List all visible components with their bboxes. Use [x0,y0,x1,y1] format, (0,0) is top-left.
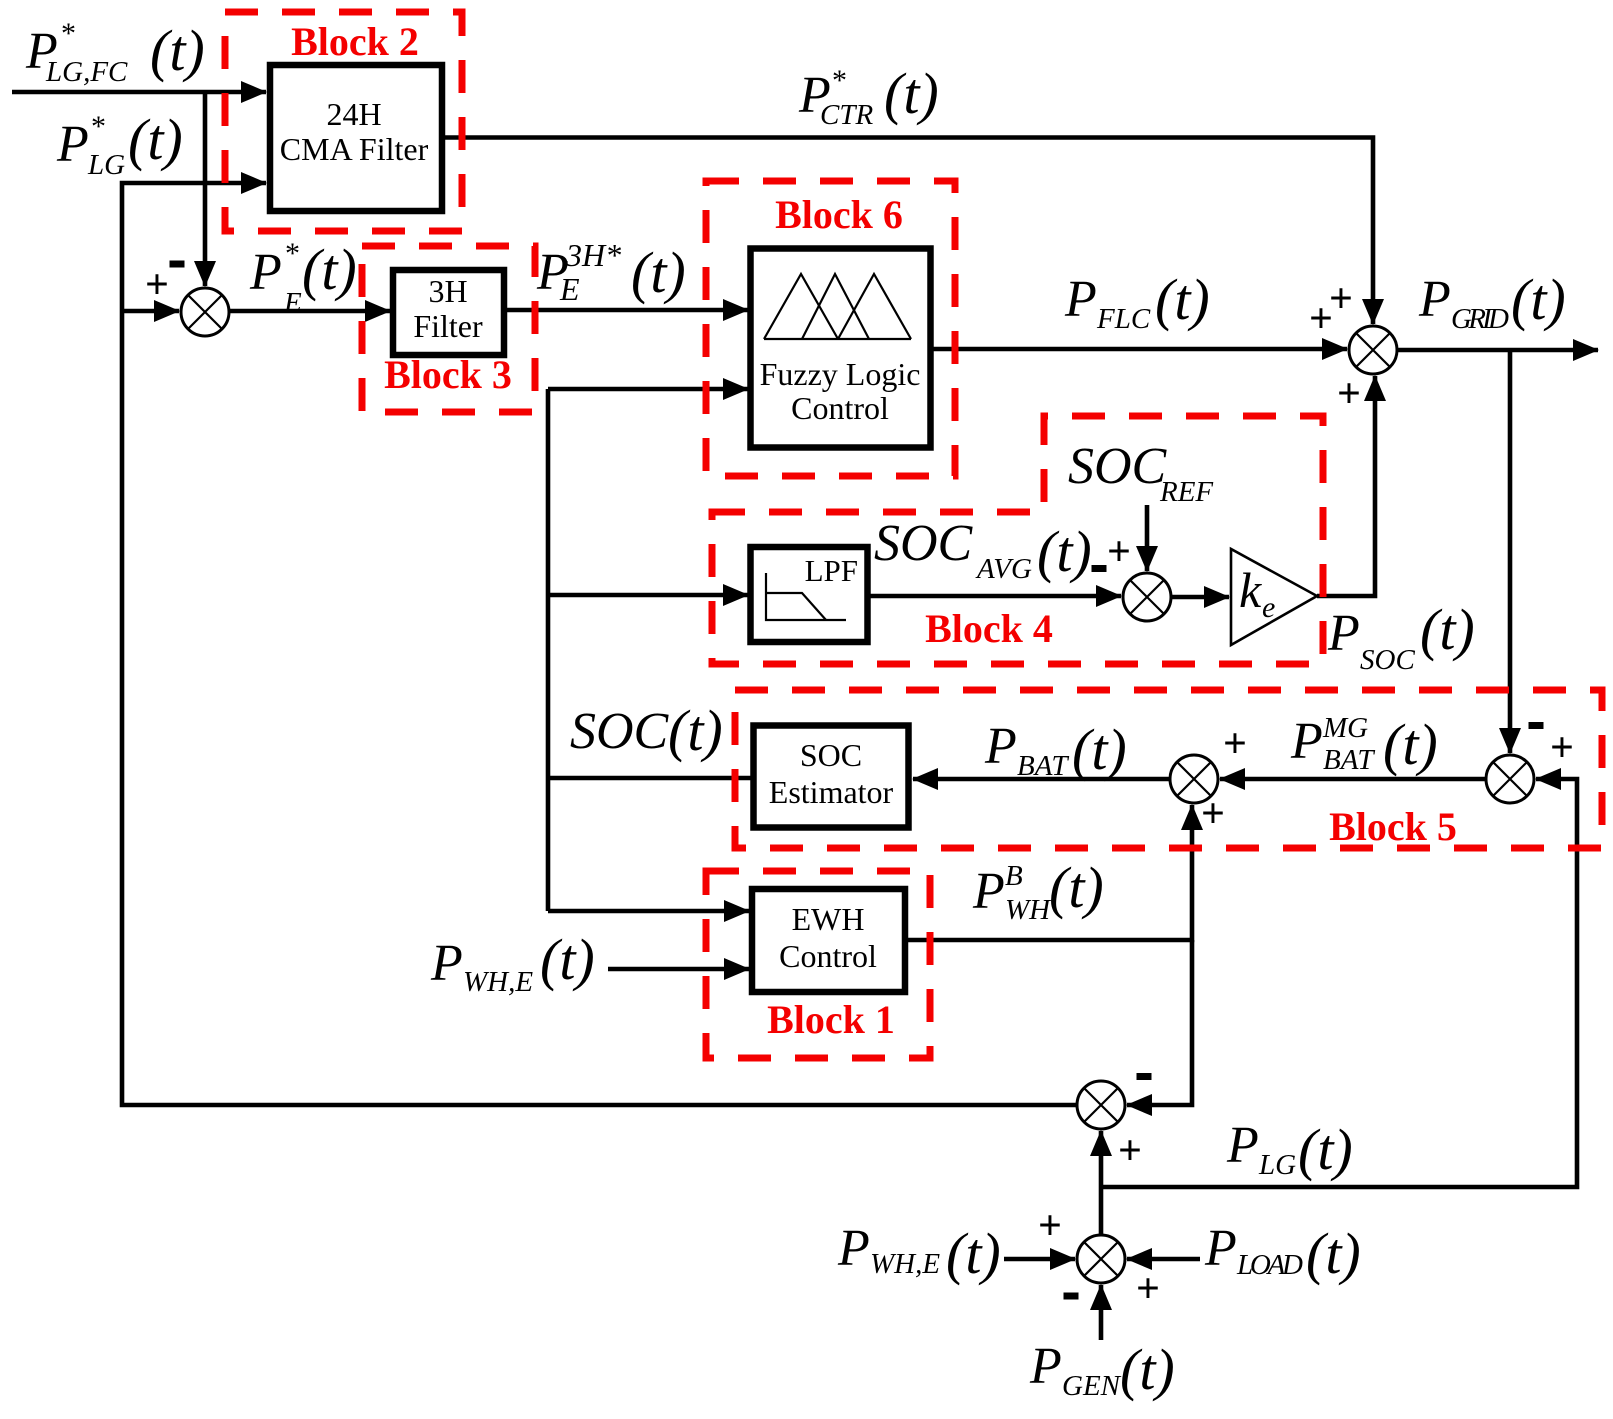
wire PGRID branch down to node J4 top [1508,350,1513,753]
wire bus to EWH Control input 1 [548,909,749,914]
wire PWH,E input to EWH Control input 2 [608,967,749,972]
svg-text:P: P [984,718,1017,775]
svg-text:E: E [283,287,302,319]
svg-text:Filter: Filter [413,308,483,344]
block 24H CMA Filter [270,65,442,211]
svg-text:(t): (t) [884,61,939,126]
svg-text:(t): (t) [1420,597,1475,662]
sign plus J4 right [1550,725,1574,771]
svg-text:SOC: SOC [1068,438,1168,495]
label PLG(t) bottom [1226,1117,1353,1182]
svg-text:P: P [1226,1117,1259,1174]
sign plus J3 bottom [1201,791,1225,837]
svg-text:+: + [1201,791,1225,837]
svg-text:(t): (t) [668,698,723,763]
wire PGRID output of S2 to right edge arrow [1397,348,1598,353]
svg-text:E: E [559,271,580,307]
wire SOC(t) from SOC Estimator to bus [548,776,751,781]
svg-text:(t): (t) [150,18,205,83]
svg-text:CTR: CTR [820,99,873,131]
svg-text:24H: 24H [326,96,381,132]
wire EWH output PBWH right then up into node J3 bottom [908,805,1192,940]
label P*LG,FC(t) [25,17,205,88]
wire branch into S1 left input [122,309,179,314]
svg-text:P: P [1204,1220,1237,1277]
svg-text:(t): (t) [1072,717,1127,782]
svg-text:LG: LG [1258,1149,1296,1181]
wire branch of PBWH down then left into node J6 right [1127,940,1192,1105]
sign plus J6 bottom [1118,1128,1142,1174]
sign plus S1 left [145,262,169,308]
svg-text:LPF: LPF [805,553,858,588]
svg-text:(t): (t) [540,927,595,992]
label PLOAD(t) [1204,1220,1361,1286]
wire bus to LPF input [548,593,748,598]
label SOCREF [1068,438,1213,508]
svg-text:+: + [1038,1203,1062,1249]
label P3H*E(t) [536,237,686,307]
svg-text:+: + [1337,371,1361,417]
svg-text:(t): (t) [1298,1117,1353,1182]
gain triangle ke [1231,549,1317,645]
svg-text:3H*: 3H* [565,237,621,273]
svg-text:Estimator: Estimator [769,774,894,810]
svg-text:(t): (t) [1120,1337,1175,1402]
svg-text:P: P [1327,605,1360,662]
wire SOCREF down into S3 top [1145,505,1150,571]
svg-text:Control: Control [779,938,877,974]
label PGEN(t) [1029,1337,1175,1402]
block LPF [751,547,868,642]
sign plus S3 top [1107,529,1131,575]
sign plus J3 right [1223,721,1247,767]
sign minus S1 top [170,261,185,268]
svg-text:AVG: AVG [975,553,1032,585]
svg-text:P: P [430,935,463,992]
label PWH,E(t) lower [837,1220,1001,1286]
wire 3H Filter output P3H*E to Fuzzy Logic Control input 1 [507,308,748,313]
wire P*LG,FC input line [12,90,266,95]
svg-text:Block 4: Block 4 [925,606,1053,651]
summing node J4 [1486,755,1534,803]
svg-text:(t): (t) [946,1221,1001,1286]
svg-text:REF: REF [1159,476,1213,508]
svg-text:P: P [249,244,282,301]
svg-text:FLC: FLC [1096,303,1151,335]
label PFLC(t) [1064,267,1210,335]
label P*LG(t) [56,107,183,181]
svg-text:SOC: SOC [800,737,862,773]
label PWH,E(t) upper [430,927,595,998]
sign minus S3 left [1092,565,1107,572]
label SOCAVG(t) [874,515,1092,585]
wire J3 output PBAT to SOC Estimator [913,777,1170,782]
wire PSOC: gain output right then up into S2 bottom [1317,376,1375,596]
svg-text:P: P [56,116,89,173]
wire PWH,E into J5 left [1004,1257,1075,1262]
wire feedback P*LG: from node J6 output left, up left side, into 24H filter [122,183,1077,1105]
summing node J6 [1077,1081,1125,1129]
svg-text:+: + [1136,1266,1160,1312]
svg-text:+: + [1309,296,1333,342]
svg-text:Block 3: Block 3 [384,352,512,397]
svg-text:+: + [1118,1128,1142,1174]
svg-text:+: + [1223,721,1247,767]
wire P*CTR: 24H filter output right then down into S2 top [440,138,1373,325]
svg-text:P: P [1418,271,1451,328]
svg-text:(t): (t) [1049,855,1104,920]
svg-text:GRID: GRID [1451,303,1509,335]
svg-text:3H: 3H [428,273,467,309]
svg-text:Block 2: Block 2 [291,19,419,64]
label PMGBAT(t) [1290,712,1438,777]
wire branch down to summing node S1 top [203,92,208,286]
label SOC(t) [570,698,723,763]
wire S3 output to gain ke [1171,595,1229,600]
label P*CTR(t) [798,61,939,131]
block SOC Estimator [754,726,909,828]
label PGRID(t) [1418,267,1566,335]
summing node S1 [181,288,229,336]
wire SOC bus vertical [546,389,551,911]
svg-text:(t): (t) [1383,712,1438,777]
svg-text:SOC: SOC [874,515,974,572]
svg-text:BAT: BAT [1017,750,1069,782]
svg-text:CMA Filter: CMA Filter [280,131,429,167]
dashed group Block 1 [706,871,930,1058]
wire bus to FLC input 2 [548,387,748,392]
dashed group Block 4 [712,416,1323,664]
svg-text:(t): (t) [128,107,183,172]
wire J4 output PMGBAT to J3 right [1220,777,1486,782]
label PBAT(t) [984,717,1127,782]
svg-text:e: e [1262,591,1275,624]
block 3H Filter [393,270,504,355]
svg-text:P: P [1064,271,1097,328]
sign plus S2 left [1309,296,1333,342]
dashed group Block 2 [225,12,462,231]
sign plus S2 top [1329,276,1353,322]
summing node J3 [1170,755,1218,803]
svg-text:EWH: EWH [792,901,865,937]
dashed group Block 5 [735,690,1602,849]
svg-text:*: * [285,237,300,270]
summing node J5 [1077,1235,1125,1283]
svg-text:P: P [972,863,1005,920]
svg-text:LOAD: LOAD [1236,1249,1303,1281]
sign plus S2 bottom [1337,371,1361,417]
svg-text:(t): (t) [302,237,357,302]
sign plus J5 left [1038,1203,1062,1249]
sign minus J4 top [1529,722,1544,729]
block Fuzzy Logic Control [751,249,931,448]
svg-text:P: P [1290,713,1323,770]
wire J5 output up into J6 bottom [1099,1131,1104,1235]
sign plus J5 right [1136,1266,1160,1312]
wire PGEN into J5 bottom [1099,1285,1104,1340]
svg-text:k: k [1239,562,1262,618]
svg-text:Fuzzy Logic: Fuzzy Logic [760,356,921,392]
svg-text:(t): (t) [1155,267,1210,332]
svg-text:WH,E: WH,E [870,1248,940,1280]
wire FLC output PFLC to summing node S2 [933,347,1347,352]
svg-text:P: P [1029,1338,1062,1395]
dashed group Block 6 [706,181,955,476]
svg-text:Control: Control [791,390,889,426]
label PBWH(t) [972,855,1104,926]
svg-text:LG,FC: LG,FC [45,56,128,88]
svg-text:(t): (t) [1511,267,1566,332]
wire LPF output SOCAVG to S3 left [870,594,1121,599]
svg-text:SOC: SOC [570,703,670,760]
sign minus J6 right [1137,1073,1152,1080]
svg-text:+: + [145,262,169,308]
svg-text:P: P [837,1220,870,1277]
svg-text:LG: LG [87,149,125,181]
label P*E(t) [249,237,357,319]
wire PLOAD into J5 right [1127,1257,1200,1262]
sign minus J5 bottom [1064,1293,1079,1300]
svg-text:+: + [1550,725,1574,771]
svg-text:B: B [1005,860,1023,892]
label PSOC(t) [1327,597,1475,676]
block EWH Control [752,889,905,992]
svg-text:GEN: GEN [1062,1370,1122,1402]
wire PLG branch right then up into J4 right input [1101,779,1577,1187]
summing node S2 [1349,326,1397,374]
svg-text:Block 1: Block 1 [767,997,895,1042]
dashed group Block 3 [362,246,535,412]
svg-text:WH,E: WH,E [463,966,533,998]
svg-text:+: + [1107,529,1131,575]
summing node S3 [1123,573,1171,621]
svg-text:WH: WH [1005,894,1052,926]
svg-text:(t): (t) [631,240,686,305]
svg-text:Block 6: Block 6 [775,192,903,237]
svg-text:*: * [61,17,76,50]
svg-text:MG: MG [1322,712,1368,744]
svg-text:Block 5: Block 5 [1329,804,1457,849]
svg-text:(t): (t) [1037,519,1092,584]
svg-text:BAT: BAT [1323,744,1375,776]
svg-text:*: * [91,110,106,143]
svg-text:(t): (t) [1306,1221,1361,1286]
svg-text:*: * [832,64,847,97]
svg-text:SOC: SOC [1360,644,1415,676]
wire S1 output to 3H Filter [229,309,390,314]
